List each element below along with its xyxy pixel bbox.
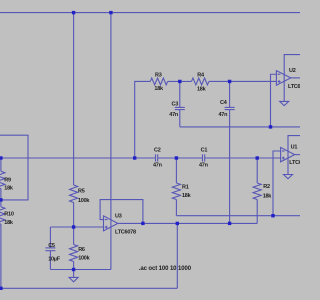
- svg-text:R6: R6: [78, 247, 85, 253]
- svg-text:47n: 47n: [169, 112, 179, 118]
- node R3-R4-C3: [178, 80, 181, 83]
- svg-text:C1: C1: [201, 147, 208, 153]
- svg-text:U2: U2: [289, 68, 296, 74]
- wire ref row: [118, 222, 257, 224]
- svg-text:47n: 47n: [219, 112, 229, 118]
- resistor R9: [0, 158, 2, 171]
- wire U1 output: [295, 154, 300, 156]
- node ref-bus: [176, 222, 179, 225]
- svg-text:LTC6078: LTC6078: [288, 84, 300, 90]
- wire C5/R6 bottom row: [50, 269, 111, 271]
- wire U2 output: [291, 77, 300, 79]
- node R10-bus: [0, 287, 3, 290]
- svg-text:18k: 18k: [4, 220, 14, 226]
- wire riser to R3 row: [135, 81, 151, 158]
- resistor R5: [70, 185, 78, 203]
- node R9-R10: [0, 198, 3, 201]
- svg-text:U1: U1: [291, 144, 298, 150]
- svg-text:R1: R1: [182, 185, 189, 191]
- wire U1 inverting riser: [273, 151, 281, 216]
- resistor R2: [256, 158, 258, 183]
- ground under U2: [280, 101, 289, 105]
- capacitor C3: [179, 81, 181, 107]
- wire U1 V+ from right edge: [288, 136, 300, 175]
- capacitor C4: [229, 81, 231, 107]
- svg-text:18k: 18k: [182, 193, 192, 199]
- node U1inv-feedback: [271, 214, 274, 217]
- node C4-ref: [228, 222, 231, 225]
- svg-text:R5: R5: [78, 189, 85, 195]
- capacitor C5: [49, 227, 51, 248]
- resistor R6: [73, 227, 75, 245]
- svg-text:C2: C2: [154, 147, 161, 153]
- svg-text:18k: 18k: [154, 86, 164, 92]
- node R4-C4-U2: [228, 80, 231, 83]
- svg-text:R9: R9: [4, 177, 11, 183]
- svg-text:100k: 100k: [78, 198, 90, 204]
- ground below R6: [73, 270, 75, 278]
- svg-text:18k: 18k: [197, 86, 207, 92]
- wire U3 supply column x111: [110, 13, 112, 270]
- svg-text:C3: C3: [172, 102, 179, 108]
- svg-text:18k: 18k: [263, 194, 273, 200]
- svg-text:U3: U3: [115, 214, 122, 220]
- svg-text:18k: 18k: [4, 185, 14, 191]
- wire input loop top: [0, 135, 28, 200]
- wire ref-to-bus vertical: [176, 223, 178, 288]
- node C2-C1-R1: [175, 156, 178, 159]
- svg-text:C5: C5: [48, 243, 55, 249]
- wire bottom bus: [0, 287, 177, 289]
- svg-text:47n: 47n: [199, 162, 209, 168]
- wire left column x74 rail-to-R5: [73, 13, 75, 185]
- capacitor C1: [202, 154, 204, 161]
- resistor R4: [192, 78, 209, 85]
- resistor R3: [150, 78, 167, 85]
- op-amp U3: [104, 216, 118, 231]
- wire U3 feedback loop: [100, 200, 143, 224]
- svg-text:LTC6078: LTC6078: [115, 230, 136, 236]
- wire C4 down to ref row: [229, 110, 231, 224]
- op-amp U2: [276, 71, 290, 86]
- node rail-U3supply: [109, 11, 112, 14]
- resistor R1: [175, 158, 177, 183]
- wire top V+ rail: [0, 12, 300, 14]
- svg-text:R10: R10: [4, 212, 14, 218]
- svg-text:100k: 100k: [78, 256, 90, 262]
- wire U2 V+ from right edge: [284, 55, 300, 102]
- wire R4 to U2 plus input: [209, 80, 277, 82]
- node R6-gnd-C5: [72, 268, 75, 271]
- node input-R9: [0, 156, 3, 159]
- wire C3 feedback row: [180, 126, 300, 128]
- wire C2-C1: [158, 157, 203, 159]
- svg-text:.ac oct 100 10 1000: .ac oct 100 10 1000: [139, 266, 192, 272]
- capacitor C2: [155, 154, 157, 161]
- wire R1/R2 feedback row: [176, 215, 300, 217]
- wire C1 to U1 plus input: [205, 157, 281, 159]
- svg-text:10µF: 10µF: [48, 257, 61, 263]
- wire R5-bottom to node: [73, 203, 75, 228]
- node C1-R2-U1: [256, 156, 259, 159]
- svg-text:LTC6078: LTC6078: [289, 160, 300, 166]
- node R5-R6-U3: [72, 225, 75, 228]
- svg-text:R3: R3: [155, 72, 162, 78]
- wire signal row left: [0, 157, 156, 159]
- op-amp U1: [281, 147, 295, 161]
- node U3out: [141, 222, 144, 225]
- node riser-signal: [133, 156, 136, 159]
- wire R3 to node: [168, 80, 180, 82]
- wire R10 to bottom bus: [0, 224, 2, 288]
- resistor R10: [0, 200, 2, 207]
- wire U3 plus input row: [50, 226, 103, 228]
- wire node to R4: [180, 80, 192, 82]
- svg-text:R2: R2: [263, 184, 270, 190]
- svg-text:47n: 47n: [153, 162, 163, 168]
- ground under U1: [284, 175, 293, 179]
- node C3-U2inv: [269, 125, 272, 128]
- wire U2 inverting riser: [271, 74, 277, 127]
- node rail-R5: [72, 11, 75, 14]
